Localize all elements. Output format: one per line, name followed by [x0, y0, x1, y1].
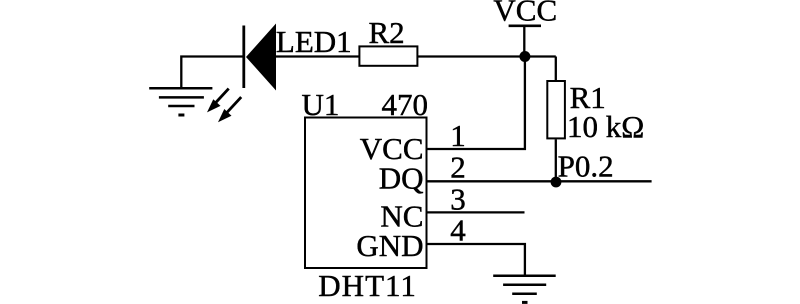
- svg-text:4: 4: [450, 213, 466, 248]
- svg-text:GND: GND: [356, 228, 423, 263]
- svg-text:3: 3: [450, 181, 466, 216]
- svg-text:DQ: DQ: [379, 161, 424, 196]
- svg-text:2: 2: [450, 150, 466, 185]
- svg-text:470: 470: [382, 87, 429, 122]
- svg-text:VCC: VCC: [493, 0, 557, 28]
- svg-text:DHT11: DHT11: [318, 268, 417, 303]
- svg-text:1: 1: [450, 118, 466, 153]
- svg-text:R2: R2: [369, 15, 405, 50]
- svg-text:P0.2: P0.2: [558, 149, 614, 184]
- svg-text:U1: U1: [302, 87, 340, 122]
- svg-text:LED1: LED1: [276, 24, 352, 59]
- svg-text:10 kΩ: 10 kΩ: [567, 109, 644, 144]
